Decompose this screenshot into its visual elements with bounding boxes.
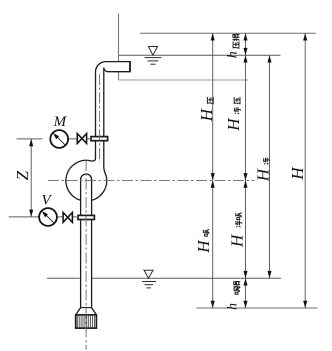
arrow h-xi-sun bottom xyxy=(243,301,247,308)
water level symbol bottom xyxy=(142,270,156,288)
arrow H-jing bottom xyxy=(267,271,271,278)
dimension arrowheads xyxy=(29,33,307,308)
svg-text:h: h xyxy=(225,303,240,310)
tank bottom line xyxy=(119,79,249,81)
label Z xyxy=(13,170,32,180)
pump volute casing xyxy=(66,160,107,200)
H dimension line xyxy=(304,33,306,308)
label h-xi-sun (suction loss) xyxy=(225,281,240,310)
label H-jing (net head) xyxy=(253,158,272,183)
strainer box xyxy=(76,315,97,328)
energy grade top line xyxy=(140,32,316,34)
arrow H-jing-ya bottom xyxy=(243,173,247,180)
pump horizontal centerline xyxy=(48,179,255,181)
suction pipe walls xyxy=(80,202,82,308)
suction vertical centerline xyxy=(85,160,87,350)
suction pipe inside pump (eye cap) xyxy=(81,174,92,202)
arrow H-ya bottom xyxy=(211,173,215,180)
arrow h-ya-sun bottom xyxy=(243,48,247,55)
arrow H-ya top xyxy=(211,33,215,40)
valve on V line xyxy=(63,213,72,223)
energy grade bottom line xyxy=(196,307,317,309)
svg-text:V: V xyxy=(42,193,53,209)
water level symbol top xyxy=(145,47,162,65)
gauge M connection line xyxy=(68,138,91,140)
svg-text:H: H xyxy=(288,166,307,181)
svg-text:H: H xyxy=(197,107,216,122)
strainer hatch xyxy=(77,316,94,328)
arrow Z top xyxy=(29,139,33,146)
lower water level line (interrupted by suction pipe) xyxy=(47,277,80,279)
arrow H-xi bottom xyxy=(211,301,215,308)
vacuum gauge V xyxy=(39,208,57,226)
H-ya / H-xi dimension line xyxy=(212,33,214,308)
valve on M line xyxy=(77,134,86,144)
Z dimension line xyxy=(30,139,32,217)
arrow H-jing-ya top xyxy=(243,55,247,62)
suction flange xyxy=(78,215,94,219)
svg-text:M: M xyxy=(53,114,68,130)
arrow H bottom xyxy=(303,301,307,308)
pressure gauge M xyxy=(50,130,68,148)
svg-text:H: H xyxy=(194,239,213,254)
svg-text:H: H xyxy=(228,233,247,248)
discharge pipe & elbow xyxy=(92,62,130,177)
gauge V connection line xyxy=(57,216,78,218)
Z extension line at M level xyxy=(17,138,43,140)
svg-text:H: H xyxy=(253,167,272,182)
reducer xyxy=(76,308,97,315)
label h-ya-sun (discharge loss) xyxy=(226,34,241,58)
H-jing dimension line xyxy=(269,55,271,278)
pipe outlet end cap xyxy=(129,61,131,72)
svg-text:H: H xyxy=(224,117,243,132)
arrow h-xi-sun top xyxy=(243,278,247,285)
label H-jing-ya (net discharge head) xyxy=(224,97,243,132)
arrow h-ya-sun top xyxy=(243,33,247,40)
pipe-to-reducer joint line xyxy=(81,307,92,309)
label H (total head) xyxy=(288,166,307,181)
arrow Z bottom xyxy=(29,210,33,217)
svg-text:Z: Z xyxy=(13,170,32,180)
arrow H top xyxy=(303,33,307,40)
upper water level line xyxy=(118,54,281,56)
discharge flange xyxy=(91,137,108,141)
label H-jing-xi (net suction head) xyxy=(228,213,247,248)
label H-ya (discharge head) xyxy=(197,97,216,122)
arrow H-xi top xyxy=(211,180,215,187)
h-ya-sun / H-jing-ya / H-jing-xi / h-xi-sun dimension line xyxy=(245,33,247,308)
tank left wall (interrupted by pipe) xyxy=(118,14,120,62)
arrow H-jing-xi top xyxy=(243,180,247,187)
discharge vertical centerline xyxy=(99,74,101,162)
label H-xi (suction head) xyxy=(194,229,213,254)
svg-text:h: h xyxy=(226,51,241,58)
arrow H-jing top xyxy=(267,55,271,62)
Z extension line at V level xyxy=(9,216,40,218)
arrow H-jing-xi bottom xyxy=(243,271,247,278)
